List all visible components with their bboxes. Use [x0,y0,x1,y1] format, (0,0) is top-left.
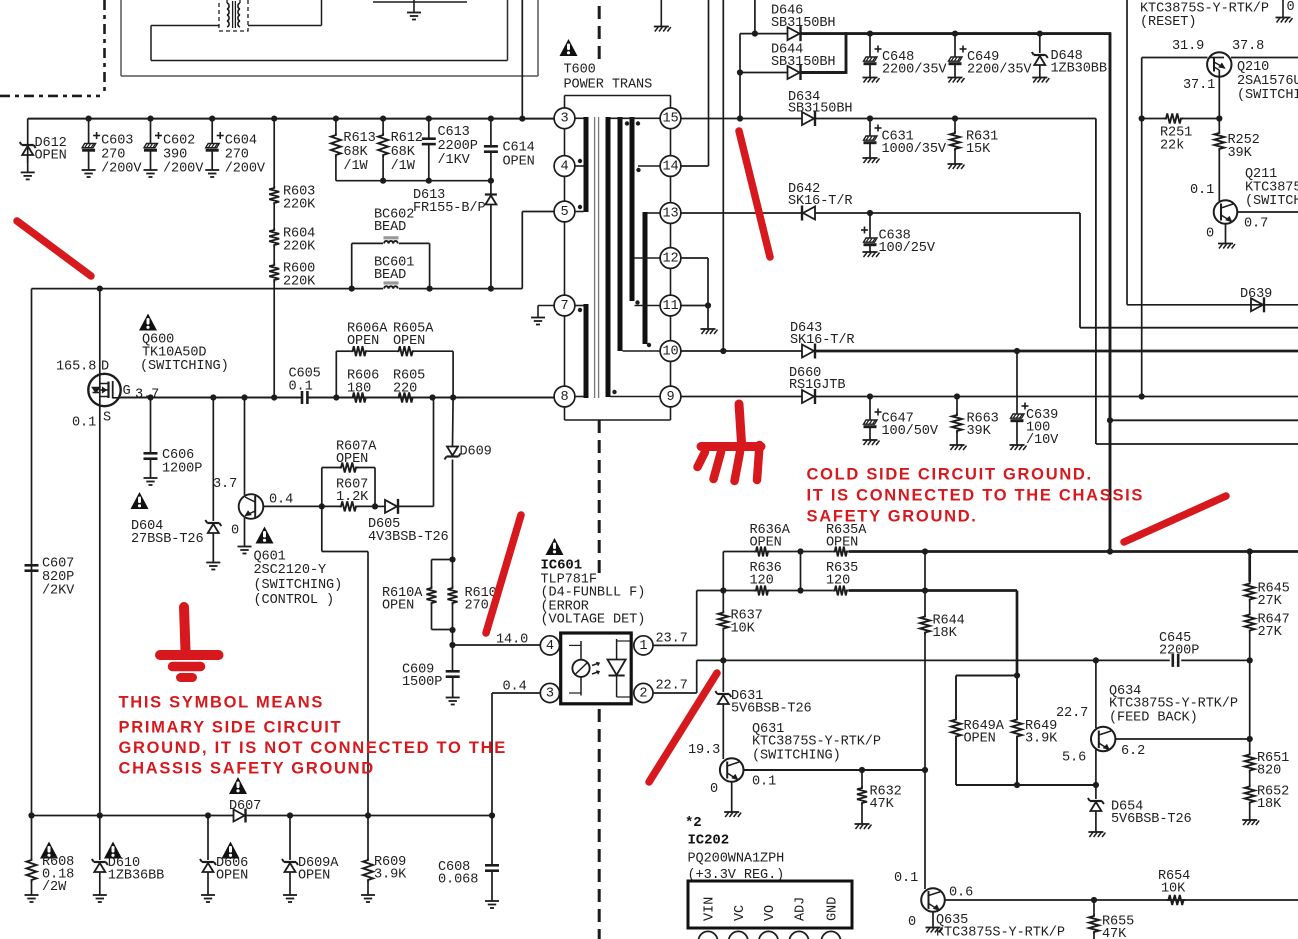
svg-text:BEAD: BEAD [374,220,406,235]
svg-text:22.7: 22.7 [1056,706,1088,721]
svg-text:R613: R613 [343,131,375,146]
svg-text:OPEN: OPEN [382,599,414,614]
svg-text:3: 3 [546,687,554,702]
svg-text:4: 4 [560,159,568,174]
svg-text:1: 1 [639,639,647,654]
svg-text:/200V: /200V [101,162,142,177]
svg-text:165.8: 165.8 [56,360,96,375]
svg-text:COLD SIDE CIRCUIT GROUND.: COLD SIDE CIRCUIT GROUND. [807,466,1093,484]
svg-text:10: 10 [662,344,678,359]
svg-text:(FEED BACK): (FEED BACK) [1109,711,1198,726]
svg-text:OPEN: OPEN [826,536,858,551]
svg-text:9: 9 [666,390,674,405]
svg-text:0: 0 [710,782,718,797]
svg-text:C604: C604 [225,134,257,149]
svg-text:39K: 39K [967,424,992,439]
svg-text:C602: C602 [163,134,195,149]
svg-text:19.3: 19.3 [688,743,720,758]
svg-text:0.1: 0.1 [72,416,96,431]
svg-text:8: 8 [560,390,568,405]
svg-text:1200P: 1200P [162,462,202,477]
svg-text:KTC3875S-Y-RTK/P: KTC3875S-Y-RTK/P [936,926,1065,939]
svg-text:1500P: 1500P [402,675,442,690]
svg-text:68K: 68K [343,145,368,160]
svg-text:(SWITCHI: (SWITCHI [1237,88,1298,103]
svg-text:VO: VO [763,905,778,921]
svg-text:OPEN: OPEN [216,869,248,884]
svg-text:5: 5 [560,205,568,220]
svg-text:SB3150BH: SB3150BH [771,55,835,70]
svg-text:270: 270 [465,599,489,614]
svg-text:390: 390 [163,148,187,163]
svg-text:/1KV: /1KV [438,153,471,168]
svg-text:18K: 18K [1257,797,1282,812]
svg-text:(CONTROL ): (CONTROL ) [254,593,335,608]
svg-text:220K: 220K [283,198,316,213]
svg-text:5V6BSB-T26: 5V6BSB-T26 [1111,812,1192,827]
svg-text:3: 3 [560,112,568,127]
svg-text:2SA1576U: 2SA1576U [1237,74,1298,89]
svg-text:*2: *2 [685,815,702,831]
svg-text:GROUND, IT IS NOT CONNECTED TO: GROUND, IT IS NOT CONNECTED TO THE [119,739,507,757]
svg-text:1ZB30BB: 1ZB30BB [1051,62,1107,77]
svg-text:3.7: 3.7 [135,388,159,403]
svg-text:R612: R612 [391,131,423,146]
svg-text:10K: 10K [1161,882,1186,897]
svg-text:100/25V: 100/25V [879,241,936,256]
svg-text:0.1: 0.1 [1190,183,1214,198]
svg-text:(D4-FUNBLL F): (D4-FUNBLL F) [541,586,646,601]
svg-text:0.1: 0.1 [752,775,776,790]
svg-text:220K: 220K [283,275,316,290]
svg-text:0.4: 0.4 [269,493,293,508]
svg-text:SK16-T/R: SK16-T/R [790,333,854,348]
svg-text:ADJ: ADJ [794,897,809,921]
svg-text:SK16-T/R: SK16-T/R [788,194,852,209]
svg-text:RS1GJTB: RS1GJTB [789,378,845,393]
svg-text:39K: 39K [1228,146,1253,161]
svg-text:SAFETY GROUND.: SAFETY GROUND. [807,508,978,526]
svg-text:D607: D607 [229,799,261,814]
svg-text:68K: 68K [391,145,416,160]
svg-text:270: 270 [101,148,125,163]
svg-text:47K: 47K [870,797,895,812]
svg-text:SB3150BH: SB3150BH [771,16,835,31]
svg-text:(SWITCHING): (SWITCHING) [254,578,343,593]
svg-text:0: 0 [231,524,239,539]
svg-text:23.7: 23.7 [656,632,688,647]
svg-text:0.1: 0.1 [894,871,918,886]
svg-text:18K: 18K [933,626,958,641]
svg-text:/1W: /1W [343,159,368,174]
svg-text:PRIMARY SIDE CIRCUIT: PRIMARY SIDE CIRCUIT [119,719,343,737]
svg-text:VC: VC [733,905,748,921]
svg-text:0.7: 0.7 [1244,217,1268,232]
svg-text:OPEN: OPEN [298,869,330,884]
svg-text:270: 270 [225,148,249,163]
svg-text:4: 4 [546,639,554,654]
svg-text:/2W: /2W [42,880,67,895]
svg-text:11: 11 [662,299,678,314]
svg-text:2200/35V: 2200/35V [967,63,1032,78]
svg-text:2200P: 2200P [1159,644,1199,659]
svg-text:100/50V: 100/50V [882,424,939,439]
svg-text:VIN: VIN [703,897,718,921]
svg-text:2200P: 2200P [438,139,478,154]
svg-text:15K: 15K [966,142,991,157]
svg-text:PQ200WNA1ZPH: PQ200WNA1ZPH [688,852,785,867]
svg-text:D609: D609 [460,445,492,460]
svg-text:KTC3875S-Y-RTK/P: KTC3875S-Y-RTK/P [1109,697,1238,712]
svg-text:6.2: 6.2 [1121,744,1145,759]
svg-text:/1W: /1W [391,159,416,174]
svg-text:OPEN: OPEN [964,732,996,747]
svg-text:37.1: 37.1 [1183,78,1215,93]
svg-text:37.8: 37.8 [1232,39,1264,54]
svg-text:1.2K: 1.2K [336,490,369,505]
svg-text:3.7: 3.7 [213,477,237,492]
svg-text:/200V: /200V [163,162,204,177]
svg-text:OPEN: OPEN [35,149,67,164]
svg-text:KTC3875S-Y-RTK/P: KTC3875S-Y-RTK/P [752,735,881,750]
svg-text:(RESET): (RESET) [1140,15,1196,30]
svg-text:0.1: 0.1 [289,380,313,395]
svg-text:Q210: Q210 [1237,60,1269,75]
svg-text:0: 0 [1206,227,1214,242]
svg-text:220: 220 [393,382,417,397]
svg-text:THIS SYMBOL MEANS: THIS SYMBOL MEANS [119,694,325,712]
svg-text:0.068: 0.068 [438,873,478,888]
svg-text:OPEN: OPEN [503,155,535,170]
svg-text:27K: 27K [1258,594,1283,609]
svg-text:1ZB36BB: 1ZB36BB [108,869,164,884]
svg-text:OPEN: OPEN [750,536,782,551]
svg-text:2SC2120-Y: 2SC2120-Y [254,563,327,578]
svg-text:14.0: 14.0 [496,633,528,648]
svg-text:22.7: 22.7 [656,679,688,694]
svg-text:220K: 220K [283,240,316,255]
svg-text:D: D [101,360,109,375]
svg-text:BEAD: BEAD [374,268,406,283]
svg-text:(SWITCHING): (SWITCHING) [140,359,229,374]
svg-text:IT IS CONNECTED TO THE CHASSIS: IT IS CONNECTED TO THE CHASSIS [807,487,1145,505]
svg-text:C603: C603 [101,134,133,149]
svg-text:(VOLTAGE DET): (VOLTAGE DET) [541,613,646,628]
svg-text:180: 180 [347,382,371,397]
svg-text:D639: D639 [1240,287,1272,302]
svg-text:IC601: IC601 [541,558,583,574]
svg-text:(SWITCHING): (SWITCHING) [752,749,841,764]
svg-text:S: S [103,411,111,426]
svg-text:47K: 47K [1102,927,1127,939]
svg-text:120: 120 [826,574,850,589]
svg-text:/2KV: /2KV [42,584,75,599]
svg-text:OPEN: OPEN [336,452,368,467]
svg-text:0: 0 [908,915,916,930]
svg-text:3.9K: 3.9K [1025,732,1058,747]
svg-text:FR155-B/P: FR155-B/P [413,201,486,216]
svg-text:IC202: IC202 [688,833,730,849]
svg-text:0.4: 0.4 [503,680,527,695]
svg-text:12: 12 [662,251,678,266]
svg-text:31.9: 31.9 [1172,39,1204,54]
svg-text:(SWITCH: (SWITCH [1245,194,1298,209]
svg-text:5.6: 5.6 [1062,751,1086,766]
svg-text:C613: C613 [438,125,470,140]
svg-text:OPEN: OPEN [347,334,379,349]
svg-text:13: 13 [662,206,678,221]
svg-text:T600: T600 [564,63,596,78]
svg-text:/200V: /200V [225,162,266,177]
svg-text:1000/35V: 1000/35V [882,142,947,157]
svg-text:5V6BSB-T26: 5V6BSB-T26 [731,702,812,717]
svg-text:15: 15 [662,112,678,127]
svg-text:120: 120 [750,574,774,589]
svg-text:POWER TRANS: POWER TRANS [564,78,653,93]
svg-text:820: 820 [1257,764,1281,779]
svg-text:2200/35V: 2200/35V [882,63,947,78]
svg-text:14: 14 [662,159,678,174]
svg-text:CHASSIS SAFETY GROUND: CHASSIS SAFETY GROUND [119,760,375,778]
svg-text:4V3BSB-T26: 4V3BSB-T26 [368,530,449,545]
svg-text:SB3150BH: SB3150BH [788,102,852,117]
svg-text:0.6: 0.6 [949,886,973,901]
svg-text:GND: GND [826,897,841,921]
svg-text:3.9K: 3.9K [374,868,407,883]
svg-text:0: 0 [1287,0,1295,15]
svg-text:10K: 10K [731,622,756,637]
svg-text:/10V: /10V [1026,433,1059,448]
svg-text:22k: 22k [1160,139,1184,154]
svg-text:7: 7 [560,299,568,314]
svg-text:OPEN: OPEN [393,334,425,349]
svg-text:27BSB-T26: 27BSB-T26 [131,532,204,547]
svg-text:C614: C614 [503,141,535,156]
svg-text:2: 2 [639,687,647,702]
svg-text:27K: 27K [1258,625,1283,640]
